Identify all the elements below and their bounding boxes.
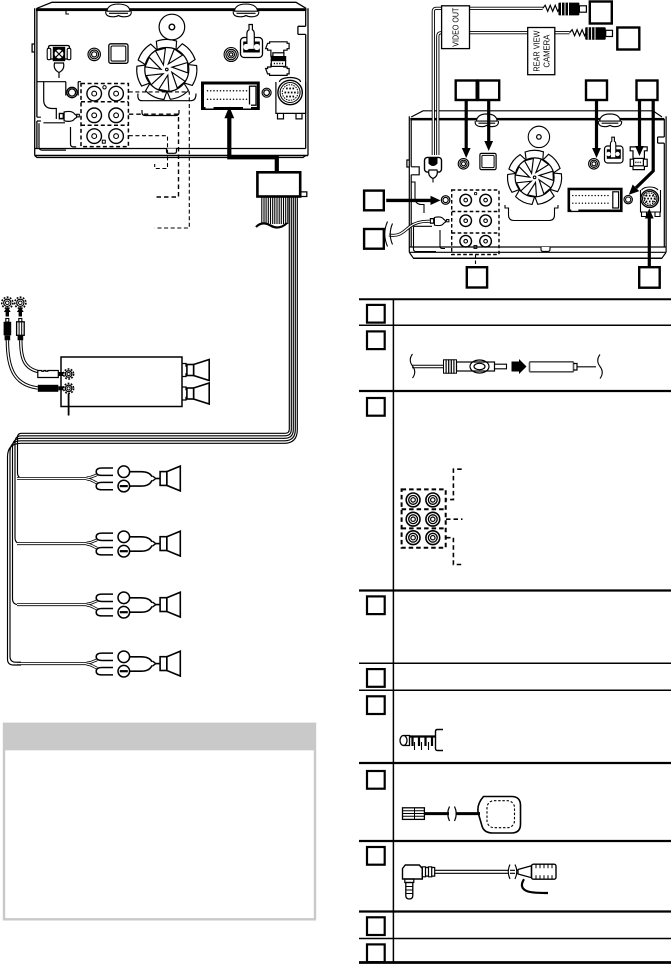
bottom edge notch right unit bbox=[541, 247, 550, 251]
lower bay contour bbox=[37, 82, 81, 150]
svg-text:CAMERA: CAMERA bbox=[542, 34, 552, 67]
ribbon slack curve bbox=[256, 223, 287, 228]
video out cable bbox=[433, 8, 542, 155]
callout square G (preout) bbox=[467, 267, 487, 287]
callout square F (remote) bbox=[364, 229, 384, 249]
table RCA jack r2c2 bbox=[426, 512, 440, 526]
wire break marks bbox=[385, 222, 393, 247]
dashed leader 1 bbox=[129, 136, 168, 169]
table item square 10 bbox=[367, 944, 385, 962]
round boss right of square bbox=[224, 48, 238, 62]
speaker wire row 3 bbox=[17, 592, 180, 618]
wiring harness block bbox=[257, 172, 300, 196]
steering-remote plug into unit bbox=[430, 217, 449, 226]
remote-in wire from square F bbox=[389, 221, 430, 235]
right preout jack r3c2 bbox=[480, 235, 492, 247]
square connector port bbox=[109, 44, 128, 64]
right head unit (small, connection overview) bbox=[407, 111, 666, 258]
dashed bracket middle bbox=[446, 518, 463, 520]
dashed leader 2 bbox=[129, 114, 179, 197]
rear camera coil bbox=[570, 30, 588, 36]
vertical RCA plug white bbox=[17, 319, 25, 341]
antenna screw terminal bbox=[47, 46, 71, 79]
bottom edge notch left unit bbox=[167, 149, 177, 154]
right unit fan bbox=[508, 150, 562, 204]
dashed leader preout to G bbox=[475, 255, 477, 268]
table row divider 10 bbox=[359, 961, 671, 964]
arrow A to ring jack bbox=[465, 100, 468, 149]
table item square 1 bbox=[367, 305, 385, 323]
AV-IN mini jack bbox=[441, 196, 450, 205]
table row divider 1 bbox=[359, 324, 671, 326]
right index dot bbox=[474, 192, 476, 194]
right preout jack r3c1 bbox=[460, 235, 472, 247]
dashed leader 3 bbox=[129, 92, 190, 228]
callout square camera plug bbox=[617, 28, 639, 50]
note box header band bbox=[4, 724, 315, 751]
amp speaker link upper bbox=[183, 364, 187, 377]
right unit tab right bbox=[598, 114, 621, 127]
right unit preout RCA dashed group bbox=[452, 190, 499, 255]
video out RCA plug bbox=[558, 3, 586, 16]
small speaker upper bbox=[187, 360, 209, 381]
steering remote harness illustration bbox=[400, 730, 443, 751]
table RCA jack r3c1 bbox=[406, 531, 420, 545]
round jack boss bbox=[88, 48, 100, 60]
arrow E to AV-IN bbox=[386, 199, 431, 202]
right unit fan tray bbox=[505, 205, 558, 221]
antenna adapter illustration bbox=[410, 354, 506, 378]
preout jack r3c1 bbox=[87, 129, 102, 144]
video out coil bbox=[543, 5, 561, 11]
right unit boss circle bbox=[528, 126, 549, 147]
callout square E (AV-IN) bbox=[364, 191, 384, 211]
callout square D bbox=[637, 81, 658, 101]
callout square H (din cable) bbox=[639, 267, 660, 288]
table item square 4 bbox=[367, 596, 385, 614]
right preout jack r2c2 bbox=[480, 215, 492, 227]
up arrow small 1 bbox=[4, 307, 11, 313]
amp speaker link lower bbox=[183, 387, 187, 400]
table RCA jack r1c2 bbox=[426, 493, 440, 507]
DIN connector housing bbox=[276, 78, 306, 114]
parts table vertical divider bbox=[392, 299, 394, 963]
right unit bracket connector bbox=[630, 147, 647, 170]
main harness connector (16-pin) bbox=[203, 83, 259, 109]
right unit square port bbox=[480, 153, 496, 169]
amp input jacks bbox=[64, 369, 74, 379]
dashed bracket upper bbox=[446, 469, 462, 499]
top mounting tab right bbox=[233, 4, 259, 17]
right unit harness connector bbox=[569, 189, 622, 211]
DIN connector bbox=[278, 80, 302, 104]
right preout jack r1c1 bbox=[460, 194, 472, 206]
RCA cables into amplifier bbox=[2, 297, 13, 308]
REAR VIEW CAMERA label bbox=[528, 28, 555, 75]
table row divider 8 bbox=[359, 910, 671, 912]
table row divider 7 bbox=[359, 840, 671, 842]
right index square bbox=[474, 246, 477, 249]
speaker wire row 4 bbox=[17, 651, 180, 677]
arrow D2 diagonal to small connector bbox=[636, 100, 653, 188]
table item square 3 bbox=[367, 398, 385, 416]
AV-IN jack ring bbox=[458, 159, 469, 170]
table row divider 4 bbox=[359, 662, 671, 664]
note box (gray) bbox=[4, 724, 315, 920]
AV mini jack ring bbox=[67, 87, 77, 97]
power amplifier box bbox=[61, 357, 182, 407]
callout square C bbox=[586, 81, 607, 101]
rear camera RCA plug bbox=[585, 27, 612, 40]
horizontal RCA plug white bbox=[38, 371, 64, 378]
small round connector bbox=[262, 88, 271, 97]
right preout jack r2c1 bbox=[460, 215, 472, 227]
bracket connector (rear-USB mount) bbox=[266, 42, 289, 76]
right DIN housing bbox=[641, 187, 661, 212]
right unit tab left bbox=[475, 114, 498, 127]
table row divider 9 bbox=[359, 938, 671, 940]
thick lead from wiring harness to connector bbox=[229, 118, 276, 173]
rear camera cable bbox=[438, 33, 570, 155]
VIDEO OUT label bbox=[442, 6, 470, 49]
preout jack r3c2 bbox=[109, 129, 124, 144]
table row divider 6 bbox=[359, 762, 671, 764]
table item square 7 bbox=[367, 771, 385, 789]
main cable bundle: down, across, down left side bbox=[8, 197, 298, 666]
svg-text:VIDEO OUT: VIDEO OUT bbox=[451, 8, 461, 47]
arrow D to bracket connector bbox=[638, 100, 641, 147]
preout jack r2c2 bbox=[109, 108, 124, 123]
svg-text:REAR VIEW: REAR VIEW bbox=[531, 31, 541, 72]
table row divider 5 bbox=[359, 689, 671, 691]
right unit lower-left contour bbox=[411, 182, 445, 252]
video output jack w/ plug bbox=[425, 157, 442, 182]
preout jack r1c2 bbox=[109, 86, 124, 101]
callout square B bbox=[478, 81, 499, 101]
table item square 6 bbox=[367, 696, 385, 714]
adapter arrow bbox=[512, 359, 527, 374]
right unit jack ring 2 bbox=[589, 159, 600, 170]
table RCA jack r2c1 bbox=[406, 512, 420, 526]
arrow C to ring jack 2 bbox=[595, 100, 598, 149]
wired plug at left bay bbox=[59, 111, 80, 121]
table item square 5 bbox=[367, 669, 385, 687]
speaker wire row 2 bbox=[17, 531, 180, 557]
table RCA jack r3c2 bbox=[426, 531, 440, 545]
table item square 8 bbox=[367, 847, 385, 865]
antenna socket bbox=[530, 362, 578, 372]
amp ground stub bbox=[68, 394, 70, 416]
small speaker lower bbox=[187, 383, 209, 404]
preout jack r2c1 bbox=[87, 108, 102, 123]
cable to upper amp input bbox=[21, 340, 38, 371]
small index dot bbox=[103, 86, 106, 89]
vertical RCA plug black bbox=[4, 319, 12, 341]
table item square 9 bbox=[367, 917, 385, 935]
right unit antenna connector bbox=[605, 137, 624, 163]
up arrow small 2 bbox=[17, 307, 24, 313]
arrow H up to DIN bbox=[648, 218, 651, 268]
arrow B to square port bbox=[487, 100, 490, 142]
head unit rear panel (large, left) bbox=[32, 2, 308, 157]
harness ribbon wires bbox=[262, 197, 288, 225]
preout RCA group (dashed box) bbox=[81, 84, 128, 147]
table row divider 2 bbox=[359, 390, 671, 392]
table RCA group illustration bbox=[402, 489, 446, 547]
small index square bbox=[102, 140, 105, 143]
cooling fan bbox=[137, 39, 197, 99]
right small round connector bbox=[624, 195, 632, 203]
dashed bracket lower bbox=[446, 538, 462, 565]
callout square A bbox=[456, 81, 477, 101]
callout square video-out plug bbox=[590, 2, 612, 24]
table item square 2 bbox=[367, 331, 385, 349]
parts table top border bbox=[359, 298, 671, 300]
right DIN connector bbox=[641, 190, 659, 208]
radio antenna connector bbox=[241, 25, 263, 58]
top mounting tab left bbox=[106, 4, 132, 17]
cable to lower amp input bbox=[7, 340, 37, 388]
table row divider 3 bbox=[359, 589, 671, 591]
microphone illustration bbox=[403, 864, 557, 899]
table RCA jack r1c1 bbox=[406, 493, 420, 507]
preout jack r1c1 bbox=[87, 86, 102, 101]
speaker wire row 1 bbox=[17, 466, 180, 492]
fan tray contours bbox=[138, 94, 196, 101]
horizontal RCA plug black bbox=[38, 385, 64, 392]
small round boss above fan bbox=[159, 14, 185, 40]
right preout jack r1c2 bbox=[480, 194, 492, 206]
GPS antenna illustration bbox=[403, 797, 521, 834]
